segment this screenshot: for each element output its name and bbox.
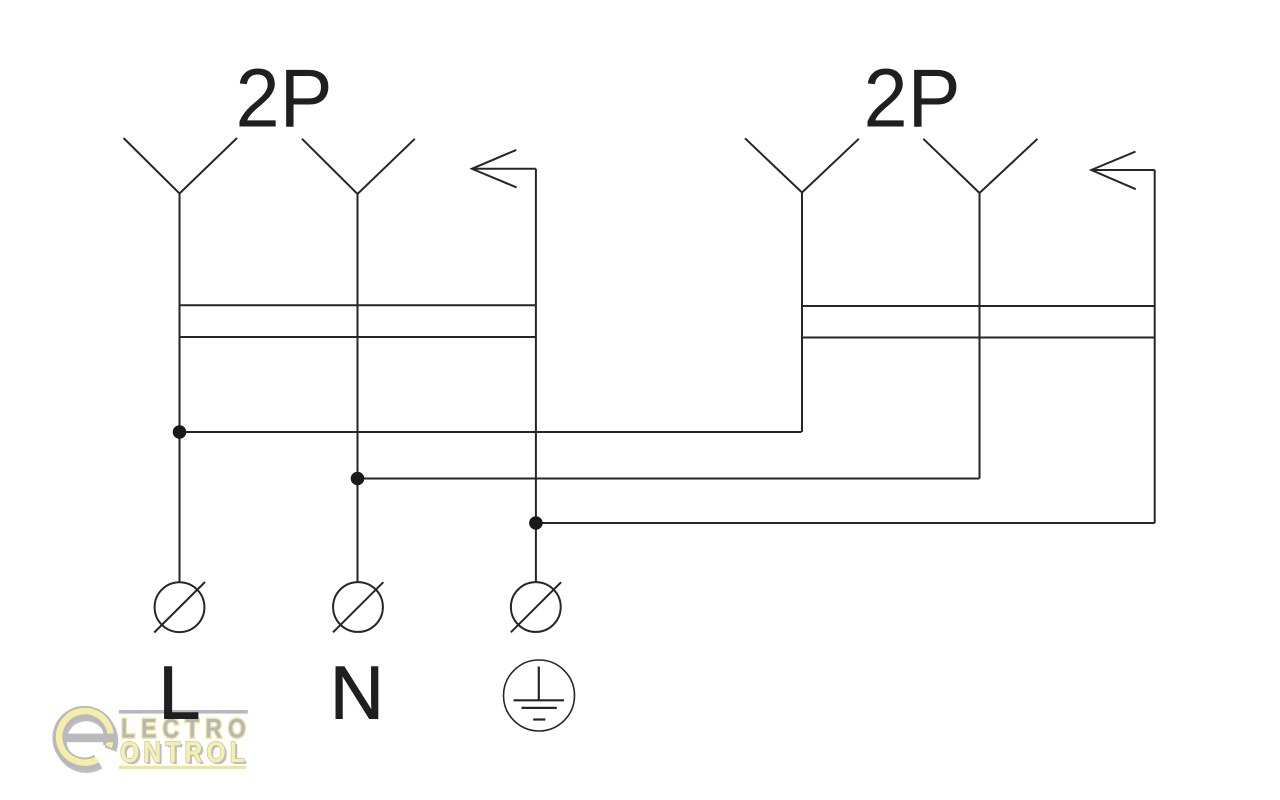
label N [330, 650, 384, 734]
logo watermark: big e gray ring [59, 712, 111, 764]
logo watermark: big e yellow ring [59, 711, 111, 763]
svg-text:ONTROL: ONTROL [120, 736, 249, 768]
wire vertical pole1-right [801, 193, 803, 433]
svg-text:L: L [158, 652, 200, 736]
svg-text:2P: 2P [863, 53, 960, 145]
actuator arrow left [472, 150, 536, 188]
contact Y pole 2 left [302, 139, 415, 194]
label L [158, 652, 200, 736]
coupling bus left lower [180, 336, 536, 338]
coupling bus left upper [180, 304, 536, 306]
protective earth symbol circle [504, 660, 575, 731]
logo watermark: big e middle bar [65, 734, 117, 743]
contact Y pole 2 right [923, 139, 1037, 193]
label 2P right [863, 53, 960, 145]
protective earth symbol bar 1 [514, 699, 565, 701]
wire vertical pole2-right [979, 193, 981, 479]
protective earth symbol bar 2 [522, 707, 557, 709]
contact Y pole 1 left [124, 138, 238, 194]
wire vertical pole2-left to terminal N [357, 194, 359, 582]
logo watermark: ONTROL text [120, 736, 251, 771]
wire vertical pole1-left to terminal L [179, 194, 181, 583]
wire PE link horizontal [536, 522, 1155, 524]
wire vertical arrow-right [1154, 170, 1156, 523]
svg-text:2P: 2P [235, 53, 332, 145]
wire L-phase link horizontal [180, 431, 802, 433]
terminal circle PE [511, 582, 561, 632]
coupling bus right upper [802, 305, 1155, 307]
logo watermark: gray top rule [119, 710, 248, 714]
logo watermark: LECTRO text [121, 714, 252, 744]
junction dot L-phase [173, 425, 187, 439]
actuator arrow right [1091, 152, 1154, 190]
svg-text:N: N [330, 650, 384, 734]
label 2P left [235, 53, 332, 145]
logo watermark: big e ring shadow [60, 715, 112, 767]
protective earth symbol stem [538, 667, 540, 701]
wire N link horizontal [358, 478, 980, 480]
junction dot N [351, 472, 365, 486]
junction dot PE [529, 516, 543, 530]
logo watermark: yellow underline [119, 766, 247, 769]
protective earth symbol bar 3 [533, 718, 545, 720]
wire vertical arrow-left to terminal PE [535, 169, 537, 583]
coupling bus right lower [802, 337, 1155, 339]
terminal circle L [154, 582, 205, 633]
terminal circle N [333, 582, 383, 632]
contact Y pole 1 right [745, 138, 859, 192]
